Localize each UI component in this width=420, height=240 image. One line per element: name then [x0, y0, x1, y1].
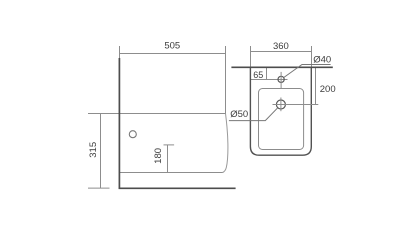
svg-text:180: 180 — [153, 148, 164, 164]
svg-text:315: 315 — [88, 142, 99, 158]
svg-text:360: 360 — [273, 41, 289, 52]
svg-text:Ø40: Ø40 — [313, 54, 331, 65]
svg-text:Ø50: Ø50 — [230, 109, 248, 120]
svg-text:505: 505 — [164, 40, 180, 51]
svg-text:65: 65 — [253, 70, 263, 80]
svg-text:200: 200 — [320, 84, 336, 95]
